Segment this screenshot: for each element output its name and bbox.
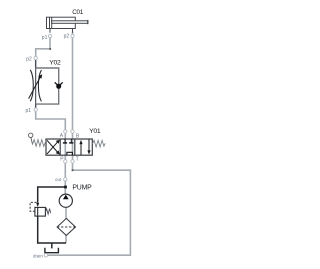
port marker drain — [44, 254, 47, 257]
valve left spring — [32, 140, 46, 147]
port marker YO2 p1 — [34, 108, 37, 111]
directional valve Y01 body — [46, 139, 92, 155]
YO2 bypass loop — [36, 68, 59, 104]
filter dashed element — [57, 226, 75, 228]
svg-text:PUMP: PUMP — [72, 184, 92, 191]
pressure relief valve body — [35, 207, 46, 216]
port marker valve P — [64, 160, 67, 163]
svg-text:C01: C01 — [72, 9, 83, 16]
port marker YO2 p2 — [34, 57, 37, 60]
wire pump bottom to filter to bottom junction — [65, 207, 67, 243]
valve right spring — [92, 140, 105, 147]
svg-text:p2: p2 — [64, 34, 70, 40]
port marker valve T — [71, 160, 74, 163]
svg-text:T: T — [76, 156, 79, 162]
pump circle — [59, 194, 72, 207]
wire from cylinder p2 down through valve B to T return and drain — [48, 32, 131, 256]
relief valve flow line inside — [37, 207, 39, 216]
junction blob on pump line — [64, 186, 67, 189]
YO2 restrictor right arc — [38, 70, 41, 101]
dark line relief valve down to bottom junction — [38, 216, 66, 243]
valve middle cell P-T bracket — [67, 152, 73, 155]
relief valve dashed pilot line — [30, 202, 36, 211]
svg-text:Y02: Y02 — [49, 59, 61, 66]
svg-text:drain: drain — [33, 253, 43, 258]
relief valve spring — [45, 209, 50, 215]
svg-text:p2: p2 — [26, 57, 32, 63]
dark branch line P to relief valve — [38, 187, 66, 203]
cylinder port stub p1 — [49, 29, 51, 33]
svg-text:p1: p1 — [42, 35, 48, 41]
cylinder rod — [52, 21, 88, 24]
cylinder port stub p2 — [72, 29, 74, 33]
flow control valve YO2 main line — [35, 60, 37, 108]
YO2 check valve seat — [55, 82, 63, 86]
tank symbol — [45, 248, 59, 253]
dark corner dot T-line bend — [72, 169, 74, 171]
svg-text:p1: p1 — [26, 108, 32, 114]
svg-text:out: out — [55, 177, 62, 182]
valve right cell down arrow — [88, 139, 90, 151]
valve right cell up arrow — [80, 144, 82, 155]
cylinder C01 body — [47, 17, 76, 28]
svg-text:Y01: Y01 — [89, 128, 101, 135]
filter diamond — [57, 218, 75, 235]
valve middle cell blocked port A — [64, 139, 66, 142]
valve middle cell blocked port B — [70, 139, 72, 142]
YO2 variable arrow — [29, 77, 41, 98]
cylinder piston — [49, 17, 51, 28]
pump triangle — [63, 195, 69, 200]
valve left actuator circle — [29, 133, 33, 137]
port marker valve B — [71, 130, 74, 133]
valve left cell crossed arrows — [47, 141, 58, 154]
port marker pump out — [64, 178, 67, 181]
YO2 restrictor left arc — [30, 70, 33, 102]
port marker cylinder p1 — [48, 34, 51, 37]
tank drop line — [51, 243, 53, 248]
dark corner dot top jog — [49, 48, 51, 50]
relief valve pilot arrowhead — [36, 203, 39, 207]
YO2 check valve ball — [56, 84, 61, 89]
port marker cylinder p2 — [71, 34, 74, 37]
wire from cylinder p1 down, left, down to valve A port — [36, 36, 66, 194]
port marker valve A — [64, 130, 67, 133]
valve divider 2 — [74, 139, 76, 155]
valve divider 1 — [59, 139, 61, 155]
